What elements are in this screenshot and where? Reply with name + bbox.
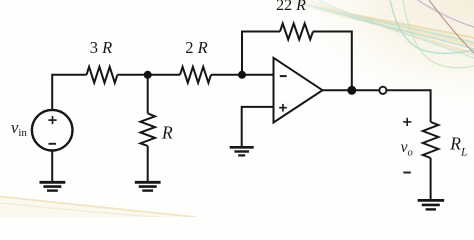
minus sign op-amp inverting xyxy=(280,75,287,77)
wire: source top to 3R xyxy=(52,75,86,110)
svg-text:22 R: 22 R xyxy=(276,0,306,14)
plus sign op-amp non-inverting xyxy=(279,104,287,112)
minus sign inside source xyxy=(49,143,57,145)
node A dot xyxy=(144,71,152,79)
feedback loop: node B up, across left segment xyxy=(242,32,280,75)
output node dot xyxy=(347,86,356,95)
wire: R to ground xyxy=(147,146,149,182)
node B dot xyxy=(238,71,246,79)
plus sign above v_o xyxy=(403,118,411,126)
wire: 2R to node B to op-amp inverting input xyxy=(211,74,274,76)
ground under RL xyxy=(418,200,445,209)
op-amp output wire xyxy=(323,89,379,91)
resistor 2R xyxy=(180,67,211,83)
voltage source v_in circle xyxy=(32,110,73,151)
output terminal open circle xyxy=(379,87,386,94)
plus sign inside source xyxy=(48,116,56,124)
wire: node A down to R xyxy=(147,75,149,114)
wire: output terminal to RL xyxy=(387,90,431,122)
resistor 3R xyxy=(87,67,118,83)
minus sign below v_o xyxy=(403,172,411,174)
feedback loop: right segment down to output node xyxy=(313,32,352,91)
ground under op-amp + input xyxy=(230,147,254,155)
resistor RL (vertical) xyxy=(423,122,439,158)
svg-text:2 R: 2 R xyxy=(185,38,207,57)
op-amp non-inverting input wire and down to ground xyxy=(242,107,274,147)
op-amp U1 xyxy=(274,58,323,123)
ground under source xyxy=(40,182,66,190)
svg-text:R: R xyxy=(161,122,173,142)
wire: source bottom to ground xyxy=(51,151,53,182)
ground under R xyxy=(135,182,161,190)
resistor R (vertical) xyxy=(140,113,155,145)
wire: RL to ground xyxy=(430,158,432,200)
svg-text:3 R: 3 R xyxy=(90,38,112,57)
wire: 3R to node A to 2R xyxy=(117,74,180,76)
resistor 22R xyxy=(280,24,313,40)
